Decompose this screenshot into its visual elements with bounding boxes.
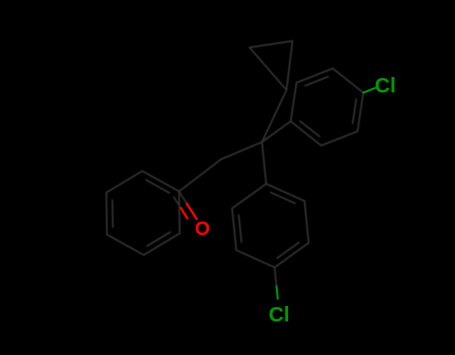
cyclopropane edge 3	[250, 48, 287, 91]
bottom-ring inner dbl 1-2	[239, 215, 242, 242]
top-ring edge 1	[321, 131, 357, 145]
C=O main dark half	[179, 191, 187, 203]
left-ring edge 1	[144, 233, 180, 255]
left-ring edge 4	[106, 171, 142, 193]
C=O second red half	[181, 208, 188, 218]
left-ring edge 0	[178, 191, 181, 233]
bottom-ring edge 3	[266, 184, 304, 201]
C=O second dark half	[174, 197, 181, 208]
top-ring edge 2	[291, 121, 322, 145]
left-ring edge 2	[107, 235, 144, 255]
bottom-ring edge 2	[232, 184, 266, 209]
bond carbonylC-CH2	[179, 159, 221, 191]
left-ring inner dbl 0-5	[146, 180, 170, 193]
left-ring edge 5	[142, 171, 179, 191]
svg-text:O: O	[195, 218, 210, 240]
bottom-ring inner dbl 3-4	[271, 192, 296, 203]
top-ring inner dbl 4-5	[305, 77, 328, 86]
Cl2 bond green half	[277, 286, 278, 299]
cyclopropane edge 1	[250, 41, 293, 48]
bond CH2-Cquaternary	[221, 142, 262, 159]
left-ring inner dbl 2-1	[147, 232, 170, 246]
top-ring edge 0	[358, 93, 364, 132]
svg-text:Cl: Cl	[375, 74, 396, 97]
bond Cquart-bottomring	[262, 142, 266, 184]
left-ring edge 3	[105, 193, 108, 235]
bottom-ring edge 1	[232, 208, 236, 250]
top-ring inner dbl 0-1	[353, 99, 357, 124]
top-ring inner dbl 2-3	[300, 121, 320, 137]
bond Cquart-cyclopropane	[262, 90, 287, 142]
left-ring inner dbl 4-3	[111, 200, 114, 227]
bottom-ring inner dbl 5-0	[277, 242, 299, 258]
bottom-ring edge 5	[275, 243, 309, 268]
top-ring edge 4	[297, 68, 333, 82]
top-ring edge 3	[291, 83, 297, 122]
Cl1 bond (green)	[363, 88, 375, 93]
top-ring edge 5	[333, 68, 364, 92]
Cl2 bond dark half	[275, 267, 277, 286]
bottom-ring edge 0	[236, 250, 274, 267]
svg-text:Cl: Cl	[269, 304, 290, 327]
bond Cquart-topring	[262, 121, 291, 142]
cyclopropane edge 2	[287, 41, 293, 90]
C=O main red half	[187, 204, 197, 220]
bottom-ring edge 4	[305, 201, 309, 243]
